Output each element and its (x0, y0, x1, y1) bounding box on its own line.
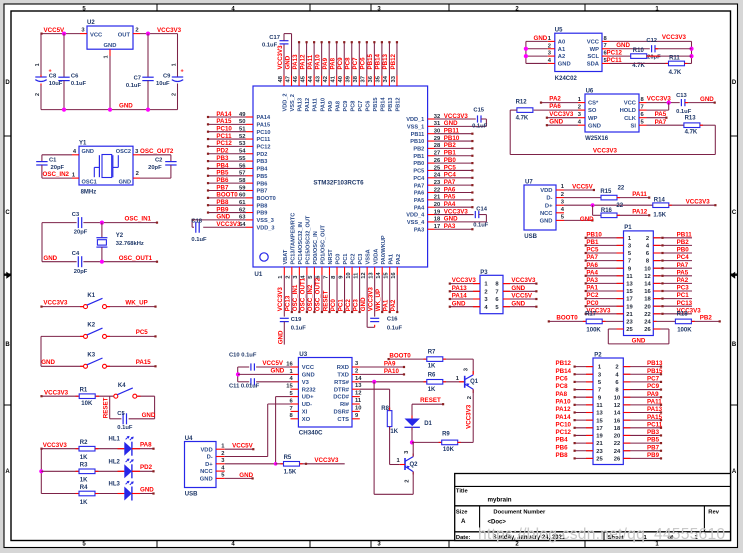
wire PC12 net pin53 (207, 145, 246, 147)
U1 pin 23 (PA7) (428, 180, 441, 186)
net label PA11 (632, 191, 647, 198)
resistor R10 4.7K (631, 48, 647, 69)
svg-text:1K: 1K (390, 429, 398, 435)
net label GND (216, 214, 230, 221)
svg-text:DSR#: DSR# (334, 410, 350, 416)
wire PC10 net P2 pin 17 (574, 427, 594, 429)
wire PC3 net P1 pin 16 (653, 290, 692, 292)
svg-text:PB11: PB11 (677, 231, 693, 238)
svg-text:11: 11 (626, 274, 633, 280)
svg-text:24: 24 (614, 449, 621, 455)
svg-text:RESET: RESET (420, 397, 441, 404)
U1 pin 16 (PA2) (391, 267, 397, 279)
capacitor C17 0.1uF (262, 34, 292, 49)
svg-text:U2: U2 (87, 20, 95, 26)
svg-text:1.5K: 1.5K (284, 469, 297, 475)
USB connector U7 (524, 180, 565, 241)
svg-text:GND: GND (452, 300, 466, 307)
wire R4 left (41, 493, 78, 495)
svg-text:37: 37 (361, 76, 367, 82)
svg-text:PB5: PB5 (647, 437, 660, 444)
svg-text:GND: GND (41, 359, 55, 366)
U1 pin 24 (PC4) (428, 173, 441, 179)
wire PA6 net P1 pin 9 (585, 267, 624, 269)
svg-text:VCC5V: VCC5V (511, 293, 533, 300)
U1 pin 11 (PC3) (353, 267, 359, 279)
svg-text:PC8: PC8 (345, 57, 352, 70)
svg-text:C9: C9 (163, 73, 171, 79)
wire GND net (132, 492, 155, 494)
U1 top pin names (rotated) (283, 93, 402, 111)
junction VCC/HOLD (667, 101, 671, 105)
wire USB D- to CH340 UD- (225, 404, 268, 457)
svg-text:GND: GND (700, 96, 714, 103)
svg-text:VCC3V3: VCC3V3 (43, 299, 68, 306)
net label PA5 (CLK) (655, 111, 667, 118)
wire VCC5V net (40, 33, 80, 35)
wire PB5 net pin57 (207, 175, 246, 177)
svg-text:DCD#: DCD# (333, 395, 350, 401)
wire BOOT0 to R17 (548, 320, 586, 322)
svg-text:20pF: 20pF (74, 269, 88, 275)
svg-text:2: 2 (135, 28, 138, 34)
svg-text:1.5K: 1.5K (653, 212, 666, 218)
svg-text:OSC_OUT1: OSC_OUT1 (119, 255, 153, 262)
svg-text:VCC3V3: VCC3V3 (216, 221, 241, 228)
svg-text:VCC3V3: VCC3V3 (277, 45, 284, 70)
capacitor C16 0.1uF (370, 317, 402, 332)
svg-text:K4: K4 (118, 383, 126, 389)
wire PC5 net (107, 335, 157, 337)
svg-text:C17: C17 (269, 35, 280, 41)
net label PB1 (586, 239, 599, 246)
net label OSC_IN2 (43, 171, 70, 178)
crystal Y1 8MHz (79, 141, 133, 196)
net label PA13 (452, 285, 468, 292)
svg-text:47: 47 (285, 76, 291, 82)
svg-text:19: 19 (626, 304, 633, 310)
svg-text:40: 40 (338, 76, 344, 82)
svg-text:OSC_IN2: OSC_IN2 (307, 284, 314, 311)
svg-text:PC7: PC7 (352, 57, 359, 70)
svg-text:XI: XI (302, 410, 308, 416)
svg-text:PC0: PC0 (336, 254, 342, 265)
wire PA2 net pin16 (396, 275, 398, 313)
svg-text:VSSA: VSSA (366, 249, 372, 264)
wire PB6 net P2 pin 23 (574, 450, 594, 452)
svg-text:PA6: PA6 (549, 103, 561, 110)
svg-text:K24C02: K24C02 (555, 76, 578, 82)
svg-text:RXD: RXD (337, 365, 349, 371)
svg-text:0.1uF: 0.1uF (472, 124, 488, 130)
capacitor C3 20pF (72, 212, 88, 236)
wire PA15 net (107, 365, 157, 367)
svg-text:C19: C19 (291, 317, 302, 323)
svg-text:PB2: PB2 (677, 239, 690, 246)
svg-text:PD2: PD2 (257, 152, 268, 158)
svg-text:20pF: 20pF (647, 55, 661, 61)
svg-text:CS*: CS* (588, 101, 599, 107)
wire R13 to VCC3V3 loop (510, 125, 715, 154)
svg-text:PB15: PB15 (647, 368, 663, 375)
svg-text:20pF: 20pF (74, 230, 88, 236)
U1 pin 31 (VSS_1) (428, 121, 441, 127)
net label GND (41, 359, 55, 366)
svg-text:39: 39 (346, 75, 352, 82)
svg-text:PC9: PC9 (337, 57, 344, 70)
svg-text:PA1: PA1 (388, 254, 394, 264)
U1 pin 15 (PA1) (384, 267, 390, 279)
net label PB2 (444, 142, 457, 149)
U1 pin 49 (PA14) (239, 112, 253, 118)
net label PA15 (216, 118, 232, 125)
resistor R14 1.5K (653, 198, 669, 219)
svg-text:PA2: PA2 (549, 96, 561, 103)
wire PC5 net pin25 (435, 169, 474, 171)
svg-text:C2: C2 (155, 157, 162, 163)
svg-text:32.768kHz: 32.768kHz (116, 241, 144, 247)
U1 pin 46 (PA13) (293, 75, 299, 86)
svg-text:PB11: PB11 (444, 128, 460, 135)
svg-text:PC9: PC9 (343, 101, 349, 112)
svg-text:C7: C7 (134, 75, 141, 81)
svg-text:PA9: PA9 (647, 391, 659, 398)
wire VSS_2 to C17 (291, 34, 293, 76)
svg-text:0.1uF: 0.1uF (291, 325, 307, 331)
wire BOOT0 net pin60 (207, 197, 246, 199)
U1 pin 34 (PB13) (383, 75, 389, 86)
svg-text:PC5: PC5 (586, 247, 599, 254)
net label VCC3V3 pin19 (444, 208, 469, 215)
wire PA7 net pin23 (435, 184, 474, 186)
svg-text:22: 22 (616, 203, 623, 209)
capacitor C11 0.01uF (229, 378, 260, 389)
net label PB1 (444, 150, 457, 157)
wire VCC3V3 rail left U6 (509, 110, 511, 154)
svg-text:VDD_2: VDD_2 (283, 93, 289, 111)
svg-text:VCC: VCC (302, 365, 315, 371)
svg-text:VBAT: VBAT (283, 249, 289, 264)
svg-text:GND: GND (540, 219, 553, 225)
resistor R18 100K (675, 312, 692, 334)
svg-text:C: C (732, 210, 737, 216)
junction GND U3 (236, 372, 240, 376)
svg-text:U5: U5 (555, 28, 563, 34)
svg-text:PA14: PA14 (257, 115, 271, 121)
net label GND U6 (549, 119, 563, 126)
svg-text:PC6: PC6 (556, 376, 569, 383)
net label BOOT0 (389, 353, 411, 360)
wire V3 to C11 (238, 381, 291, 383)
svg-text:PA10: PA10 (556, 398, 572, 405)
svg-text:P1: P1 (624, 225, 632, 231)
wire WP to C12 (610, 48, 650, 50)
net label PB7 (647, 444, 660, 451)
wire BOOT0 to R7 (388, 358, 427, 360)
svg-text:PA0/WKUP: PA0/WKUP (381, 235, 387, 264)
wire PA5 net pin21 (435, 199, 474, 201)
svg-text:PA8: PA8 (140, 442, 152, 449)
svg-text:PB9: PB9 (257, 211, 268, 217)
net label VCC3V3 (686, 199, 711, 206)
svg-text:+: + (49, 69, 52, 75)
USB connector U4 (185, 436, 226, 498)
svg-text:GND: GND (558, 62, 571, 68)
svg-text:26: 26 (614, 457, 621, 463)
svg-text:V3: V3 (302, 380, 310, 386)
svg-text:RTS#: RTS# (334, 380, 350, 386)
U1 pin 20 (PA4) (428, 202, 441, 208)
svg-text:HL2: HL2 (109, 459, 121, 465)
svg-text:WK_UP: WK_UP (125, 299, 147, 306)
svg-text:VSS_3: VSS_3 (257, 218, 274, 224)
header P2 26-pin (593, 353, 623, 465)
U1 pin 3 (PC14/OSC32_IN) (293, 267, 299, 279)
net label PB6 (216, 177, 229, 184)
junction VCC3V3 rail (146, 31, 150, 35)
svg-text:PC15/OSC32_OUT: PC15/OSC32_OUT (305, 215, 311, 264)
wire VDDA to C16 (374, 275, 376, 327)
svg-text:19: 19 (596, 434, 603, 440)
svg-text:USB: USB (185, 491, 198, 497)
svg-text:PB9: PB9 (647, 452, 660, 459)
wire D1 cathode to junction (411, 427, 413, 442)
U2 pin 3 (80, 28, 87, 34)
svg-text:C5: C5 (117, 411, 125, 417)
svg-text:PA14: PA14 (556, 414, 572, 421)
net label PC5 (136, 329, 149, 336)
svg-text:10: 10 (355, 405, 361, 411)
svg-text:R14: R14 (654, 198, 666, 204)
wire PA11 net (617, 197, 650, 199)
svg-text:R13: R13 (685, 115, 697, 121)
net label VCC3V3 (rotated) (367, 287, 374, 312)
wire PA10 net (TXD) (360, 373, 405, 375)
switch K2 (84, 323, 107, 339)
wire PA2 net P1 pin 14 (653, 282, 692, 284)
svg-text:PC10: PC10 (216, 126, 232, 133)
svg-text:VSS_4: VSS_4 (407, 220, 425, 226)
svg-text:4.7K: 4.7K (669, 70, 682, 76)
wire GND bracket P1 pins 25-26 (608, 329, 669, 344)
svg-text:100K: 100K (677, 328, 692, 334)
svg-text:PB8: PB8 (556, 452, 569, 459)
net label GND (rotated) (284, 55, 291, 69)
svg-text:Y1: Y1 (79, 141, 87, 147)
U1 pin 55 (PB3) (239, 156, 253, 162)
wire USB D+ to CH340 UD+ (225, 397, 276, 464)
net label PA7 (SI) (655, 119, 667, 126)
wire PB15 net P2 pin 4 (623, 373, 662, 375)
U1 pin 5 (PD0/OSC_IN) (308, 267, 314, 279)
switch K4 (114, 383, 137, 398)
wire PA11 net P2 pin 12 (623, 404, 662, 406)
wire PB9 net P2 pin 26 (623, 457, 662, 459)
net label PC2 (586, 292, 599, 299)
svg-text:U1: U1 (254, 271, 262, 278)
net label GND pin18 (444, 216, 458, 223)
svg-text:PB5: PB5 (216, 170, 229, 177)
svg-text:PC3: PC3 (358, 254, 364, 265)
microcontroller U1 STM32F103RCT6 (253, 86, 428, 278)
svg-text:PC4: PC4 (677, 254, 690, 261)
svg-text:PA10: PA10 (314, 54, 321, 70)
svg-text:<Doc>: <Doc> (488, 519, 507, 525)
net label VCC3V3 (157, 27, 182, 34)
svg-text:PA3: PA3 (414, 227, 424, 233)
resistor R2 1K (79, 440, 95, 461)
net label RESET (420, 397, 441, 404)
U1 pin 61 (PB8) (239, 200, 253, 206)
wire PB14 net pin35 (381, 41, 383, 75)
wire GND net U7 (564, 219, 594, 221)
svg-text:+: + (181, 69, 184, 75)
svg-text:PC10: PC10 (257, 130, 271, 136)
voltage regulator U2 (87, 20, 133, 49)
net label PA4 (444, 201, 456, 208)
wire PA12 net pin45 (305, 41, 307, 75)
svg-text:Q2: Q2 (410, 462, 419, 468)
svg-text:OSC_IN1: OSC_IN1 (125, 215, 152, 222)
wire SI to R13 (647, 124, 684, 126)
svg-text:PA9: PA9 (384, 361, 396, 368)
svg-text:OSC2: OSC2 (116, 149, 131, 155)
U1 pin 21 (PA5) (428, 195, 441, 201)
svg-text:USB: USB (524, 234, 537, 240)
wire PA11 net pin44 (313, 41, 315, 75)
svg-text:1: 1 (172, 63, 178, 66)
wire R3 left (41, 470, 78, 472)
net label PA7 (586, 254, 598, 261)
wire PB7 net P2 pin 24 (623, 450, 662, 452)
svg-text:GND: GND (588, 123, 601, 129)
svg-text:PA12: PA12 (305, 98, 311, 112)
svg-text:A: A (732, 469, 737, 475)
wire R6 to Q1 base (443, 381, 465, 383)
svg-text:VDD: VDD (540, 188, 552, 194)
svg-text:GND: GND (302, 373, 315, 379)
net label PA7 (677, 262, 689, 269)
USB-UART U3 CH340C (286, 351, 362, 436)
wire PA8 net P2 pin 9 (574, 396, 594, 398)
net label PC11 (SDA) (607, 57, 623, 64)
wire PB13 net P2 pin 2 (623, 366, 662, 368)
net label PA2 (CS) (549, 96, 561, 103)
svg-text:BOOT0: BOOT0 (216, 192, 238, 199)
net label PC13 (677, 300, 693, 307)
svg-text:20pF: 20pF (51, 165, 65, 171)
net label PC2 (rotated) (345, 299, 352, 312)
wire PA3 net P1 pin 13 (585, 282, 624, 284)
svg-text:PC12: PC12 (556, 429, 572, 436)
svg-text:VCC5V: VCC5V (572, 183, 594, 190)
svg-text:WP: WP (588, 116, 597, 122)
svg-text:10uF: 10uF (156, 81, 170, 87)
net label OSC_OUT1 (rotated) (300, 277, 307, 311)
svg-text:8MHz: 8MHz (81, 190, 97, 196)
svg-text:PC13: PC13 (677, 300, 693, 307)
U1 pin 32 (VDD_1) (428, 114, 441, 120)
svg-text:PC5: PC5 (444, 164, 457, 171)
svg-text:22: 22 (644, 312, 650, 318)
wire GND net to U6 GND (546, 124, 578, 126)
svg-text:C3: C3 (72, 212, 80, 218)
svg-text:RESET: RESET (102, 397, 109, 418)
wire PA10 net pin43 (321, 41, 323, 75)
svg-text:PC10: PC10 (556, 421, 572, 428)
svg-text:Title: Title (456, 488, 469, 494)
wire PA9 net (RXD) (360, 366, 405, 368)
svg-text:VDD_4: VDD_4 (406, 213, 425, 219)
net label GND (271, 367, 285, 374)
svg-text:GND: GND (360, 297, 367, 311)
wire PA10 net P2 pin 11 (574, 404, 594, 406)
svg-text:OSC_IN2: OSC_IN2 (43, 171, 70, 178)
net label PC6 (556, 376, 569, 383)
wire GND rail U5 left (526, 41, 548, 63)
svg-text:48: 48 (278, 75, 284, 82)
svg-text:VDD_1: VDD_1 (406, 117, 424, 123)
net label PC11 (647, 421, 663, 428)
wire GND net pin63 (192, 219, 247, 221)
net label OSC_OUT1 (119, 255, 153, 262)
wire VCC3V3 net P1 pin 22 (653, 313, 692, 315)
svg-text:13: 13 (626, 282, 633, 288)
LED HL1 (109, 436, 134, 456)
wire OSC_OUT2 net pin6 (321, 275, 323, 313)
U1 pin 56 (PB4) (239, 163, 253, 169)
net label PA9 (384, 361, 396, 368)
svg-text:15: 15 (384, 272, 390, 279)
svg-text:GND: GND (616, 42, 630, 49)
wire PB8 net pin61 (207, 204, 246, 206)
net label GND (511, 300, 525, 307)
svg-text:PB14: PB14 (375, 53, 382, 69)
net label PA6 (444, 186, 456, 193)
svg-text:21: 21 (596, 441, 603, 447)
svg-text:15: 15 (596, 418, 603, 424)
net label PA10 (556, 398, 572, 405)
net label GND U5 pin1 (534, 35, 548, 42)
svg-text:PB2: PB2 (700, 314, 713, 321)
wire PB4 net P2 pin 21 (574, 442, 594, 444)
svg-text:VCC3V3: VCC3V3 (549, 111, 574, 118)
svg-text:PB0: PB0 (413, 161, 424, 167)
svg-text:7: 7 (289, 406, 292, 412)
svg-text:VCC3V3: VCC3V3 (593, 148, 618, 155)
net label PC8 (556, 383, 569, 390)
svg-text:RI#: RI# (340, 402, 350, 408)
U1 pin 51 (PC10) (239, 127, 253, 133)
svg-text:RESET: RESET (322, 290, 329, 311)
net label GND (119, 103, 133, 110)
svg-text:PB10: PB10 (410, 139, 424, 145)
capacitor C8 10uF (35, 34, 63, 110)
net label PB9 (647, 452, 660, 459)
svg-text:PA7: PA7 (444, 179, 456, 186)
net label PA5 (444, 194, 456, 201)
U1 pin 27 (PB1) (428, 151, 441, 157)
svg-text:PB10: PB10 (444, 135, 460, 142)
svg-text:PB7: PB7 (216, 184, 229, 191)
svg-text:PC0: PC0 (330, 299, 337, 312)
wire RESET to D1 (412, 403, 444, 418)
svg-text:PA1: PA1 (383, 299, 390, 311)
U1 pin 62 (PB9) (239, 207, 253, 213)
wire GND rail U3 (237, 367, 239, 382)
svg-text:P2: P2 (594, 353, 602, 359)
U2 pin 1 (103, 49, 110, 58)
